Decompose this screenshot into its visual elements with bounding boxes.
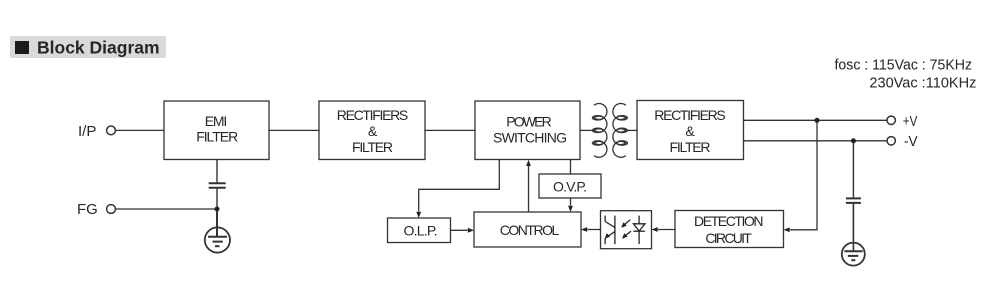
svg-text:EMI: EMI xyxy=(205,113,228,129)
svg-text:POWER: POWER xyxy=(506,114,552,130)
svg-text:Block Diagram: Block Diagram xyxy=(37,38,160,58)
svg-text:O.L.P.: O.L.P. xyxy=(404,223,438,239)
svg-text:SWITCHING: SWITCHING xyxy=(493,130,567,146)
svg-text:FILTER: FILTER xyxy=(670,139,711,155)
svg-text:fosc : 115Vac : 75KHz: fosc : 115Vac : 75KHz xyxy=(835,58,973,74)
svg-text:RECTIFIERS: RECTIFIERS xyxy=(654,107,726,123)
svg-text:CONTROL: CONTROL xyxy=(500,222,560,238)
svg-text:230Vac :110KHz: 230Vac :110KHz xyxy=(869,76,976,92)
svg-text:FILTER: FILTER xyxy=(352,139,393,155)
svg-text:I/P: I/P xyxy=(78,123,96,140)
svg-text:+V: +V xyxy=(903,114,918,130)
svg-text:DETECTION: DETECTION xyxy=(694,213,764,229)
svg-text:&: & xyxy=(368,123,378,139)
svg-text:O.V.P.: O.V.P. xyxy=(553,178,587,194)
svg-text:FG: FG xyxy=(77,201,98,218)
svg-text:FILTER: FILTER xyxy=(196,129,238,145)
svg-text:-V: -V xyxy=(904,134,918,150)
svg-text:RECTIFIERS: RECTIFIERS xyxy=(337,107,409,123)
svg-text:CIRCUIT: CIRCUIT xyxy=(705,230,752,246)
svg-text:&: & xyxy=(685,123,695,139)
